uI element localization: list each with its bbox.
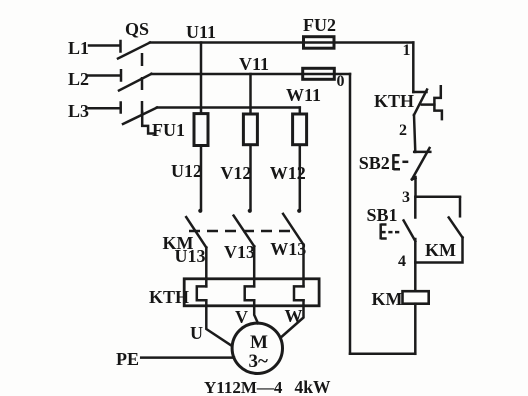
wire V11	[249, 74, 252, 114]
switch QS linkage (dashed)	[141, 53, 144, 119]
thermal relay KTH heater U	[197, 286, 207, 300]
contact KM main W upper tip	[297, 209, 301, 213]
wire W12	[299, 145, 302, 209]
wire L1 to FU2	[150, 41, 413, 44]
thermal contact KTH blade	[414, 90, 427, 116]
svg-text:FU1: FU1	[152, 120, 185, 140]
svg-text:U13: U13	[175, 246, 206, 266]
svg-text:U: U	[190, 323, 203, 343]
wire node 2	[414, 115, 415, 152]
svg-text:SB2: SB2	[359, 153, 390, 173]
svg-text:V: V	[235, 307, 248, 327]
switch QS pole 1	[118, 43, 150, 59]
switch QS pole 2	[119, 74, 151, 91]
button SB1 blade	[404, 221, 416, 242]
fuse FU2 upper	[304, 37, 335, 49]
thermal relay KTH heater V	[245, 286, 255, 300]
wire U12	[200, 146, 203, 209]
svg-text:4kW: 4kW	[295, 377, 331, 396]
contact KM aux upper	[459, 198, 462, 217]
wire bottom return	[350, 353, 415, 356]
svg-text:4: 4	[398, 253, 406, 270]
svg-text:V12: V12	[220, 163, 251, 183]
wire motor V	[254, 300, 258, 323]
svg-text:FU2: FU2	[303, 15, 336, 35]
svg-text:2: 2	[399, 122, 407, 139]
button SB1 link dash	[388, 231, 399, 234]
wire U13	[205, 248, 208, 287]
wire SB1 lower	[414, 239, 417, 263]
svg-text:1: 1	[403, 42, 411, 59]
wire motor W	[281, 300, 304, 337]
wire coil to bottom	[414, 304, 417, 354]
svg-text:KTH: KTH	[374, 91, 414, 111]
wire V13	[253, 246, 256, 286]
svg-text:L3: L3	[68, 101, 89, 121]
svg-text:W: W	[285, 306, 303, 326]
svg-text:QS: QS	[125, 19, 149, 39]
svg-text:SB1: SB1	[367, 205, 398, 225]
thermal relay KTH heater W	[294, 286, 304, 300]
wire W13	[302, 245, 305, 287]
contact KM aux blade	[449, 218, 463, 238]
fuse FU2 lower	[303, 68, 335, 79]
svg-text:L1: L1	[68, 38, 89, 58]
wire L2 input	[88, 70, 121, 80]
fuse FU1 phase U	[194, 114, 208, 146]
wire L3 to W11	[157, 106, 300, 109]
button SB2 blade	[412, 148, 430, 179]
wire W11	[299, 108, 302, 115]
button SB2 actuator	[393, 154, 400, 170]
switch QS pole 3	[123, 108, 157, 125]
fuse FU1 phase W	[293, 114, 307, 145]
contact KM main U upper tip	[198, 209, 202, 213]
svg-text:M: M	[250, 332, 268, 353]
svg-text:L2: L2	[68, 69, 89, 89]
wire motor U	[206, 300, 230, 345]
wire node 0 drop	[349, 74, 352, 354]
thermal relay KTH housing	[184, 279, 319, 306]
svg-text:V11: V11	[239, 54, 269, 74]
wire node 1 drop	[412, 43, 415, 93]
contact KM aux lower	[415, 238, 462, 263]
button SB1 actuator	[381, 224, 387, 240]
svg-text:Y112M—4: Y112M—4	[204, 378, 283, 396]
wire L3 input	[89, 103, 121, 113]
contact KM linkage (dashed)	[189, 230, 296, 233]
wire U11	[200, 43, 203, 114]
contact KM main V blade	[234, 216, 255, 247]
switch QS pole 3 lower contact hook	[142, 112, 153, 134]
fuse FU1 phase V	[243, 114, 257, 145]
button SB2 link dash	[402, 161, 408, 164]
svg-text:KM: KM	[372, 289, 403, 309]
wire PE	[141, 356, 234, 359]
wire V12	[249, 145, 252, 209]
svg-text:U12: U12	[171, 161, 202, 181]
wire L1 input	[89, 41, 121, 52]
svg-text:3~: 3~	[249, 351, 269, 372]
svg-text:V13: V13	[224, 242, 255, 262]
wire SB2 to node 3	[414, 177, 417, 197]
wire SB1 upper	[414, 197, 417, 218]
svg-text:0: 0	[337, 73, 345, 90]
thermal contact KTH NC seat	[413, 91, 426, 94]
svg-text:KM: KM	[425, 240, 456, 260]
contact KM main W blade	[283, 214, 303, 245]
wire L2 to FU2	[151, 73, 350, 76]
svg-text:3: 3	[402, 189, 410, 206]
svg-text:U11: U11	[186, 22, 216, 42]
svg-text:W11: W11	[286, 85, 321, 105]
wire node 4 to coil	[414, 263, 417, 292]
contact KM main U blade	[186, 217, 206, 247]
wire node 3 branch	[416, 196, 460, 199]
button SB2 NC seat	[414, 151, 430, 154]
contact KM main V upper tip	[248, 209, 252, 213]
thermal contact KTH trip symbol	[434, 86, 442, 119]
motor M1 circle	[232, 323, 282, 373]
coil KM	[403, 291, 429, 304]
svg-text:PE: PE	[116, 349, 139, 369]
thermal contact KTH link	[422, 103, 435, 106]
svg-text:W13: W13	[270, 239, 306, 259]
